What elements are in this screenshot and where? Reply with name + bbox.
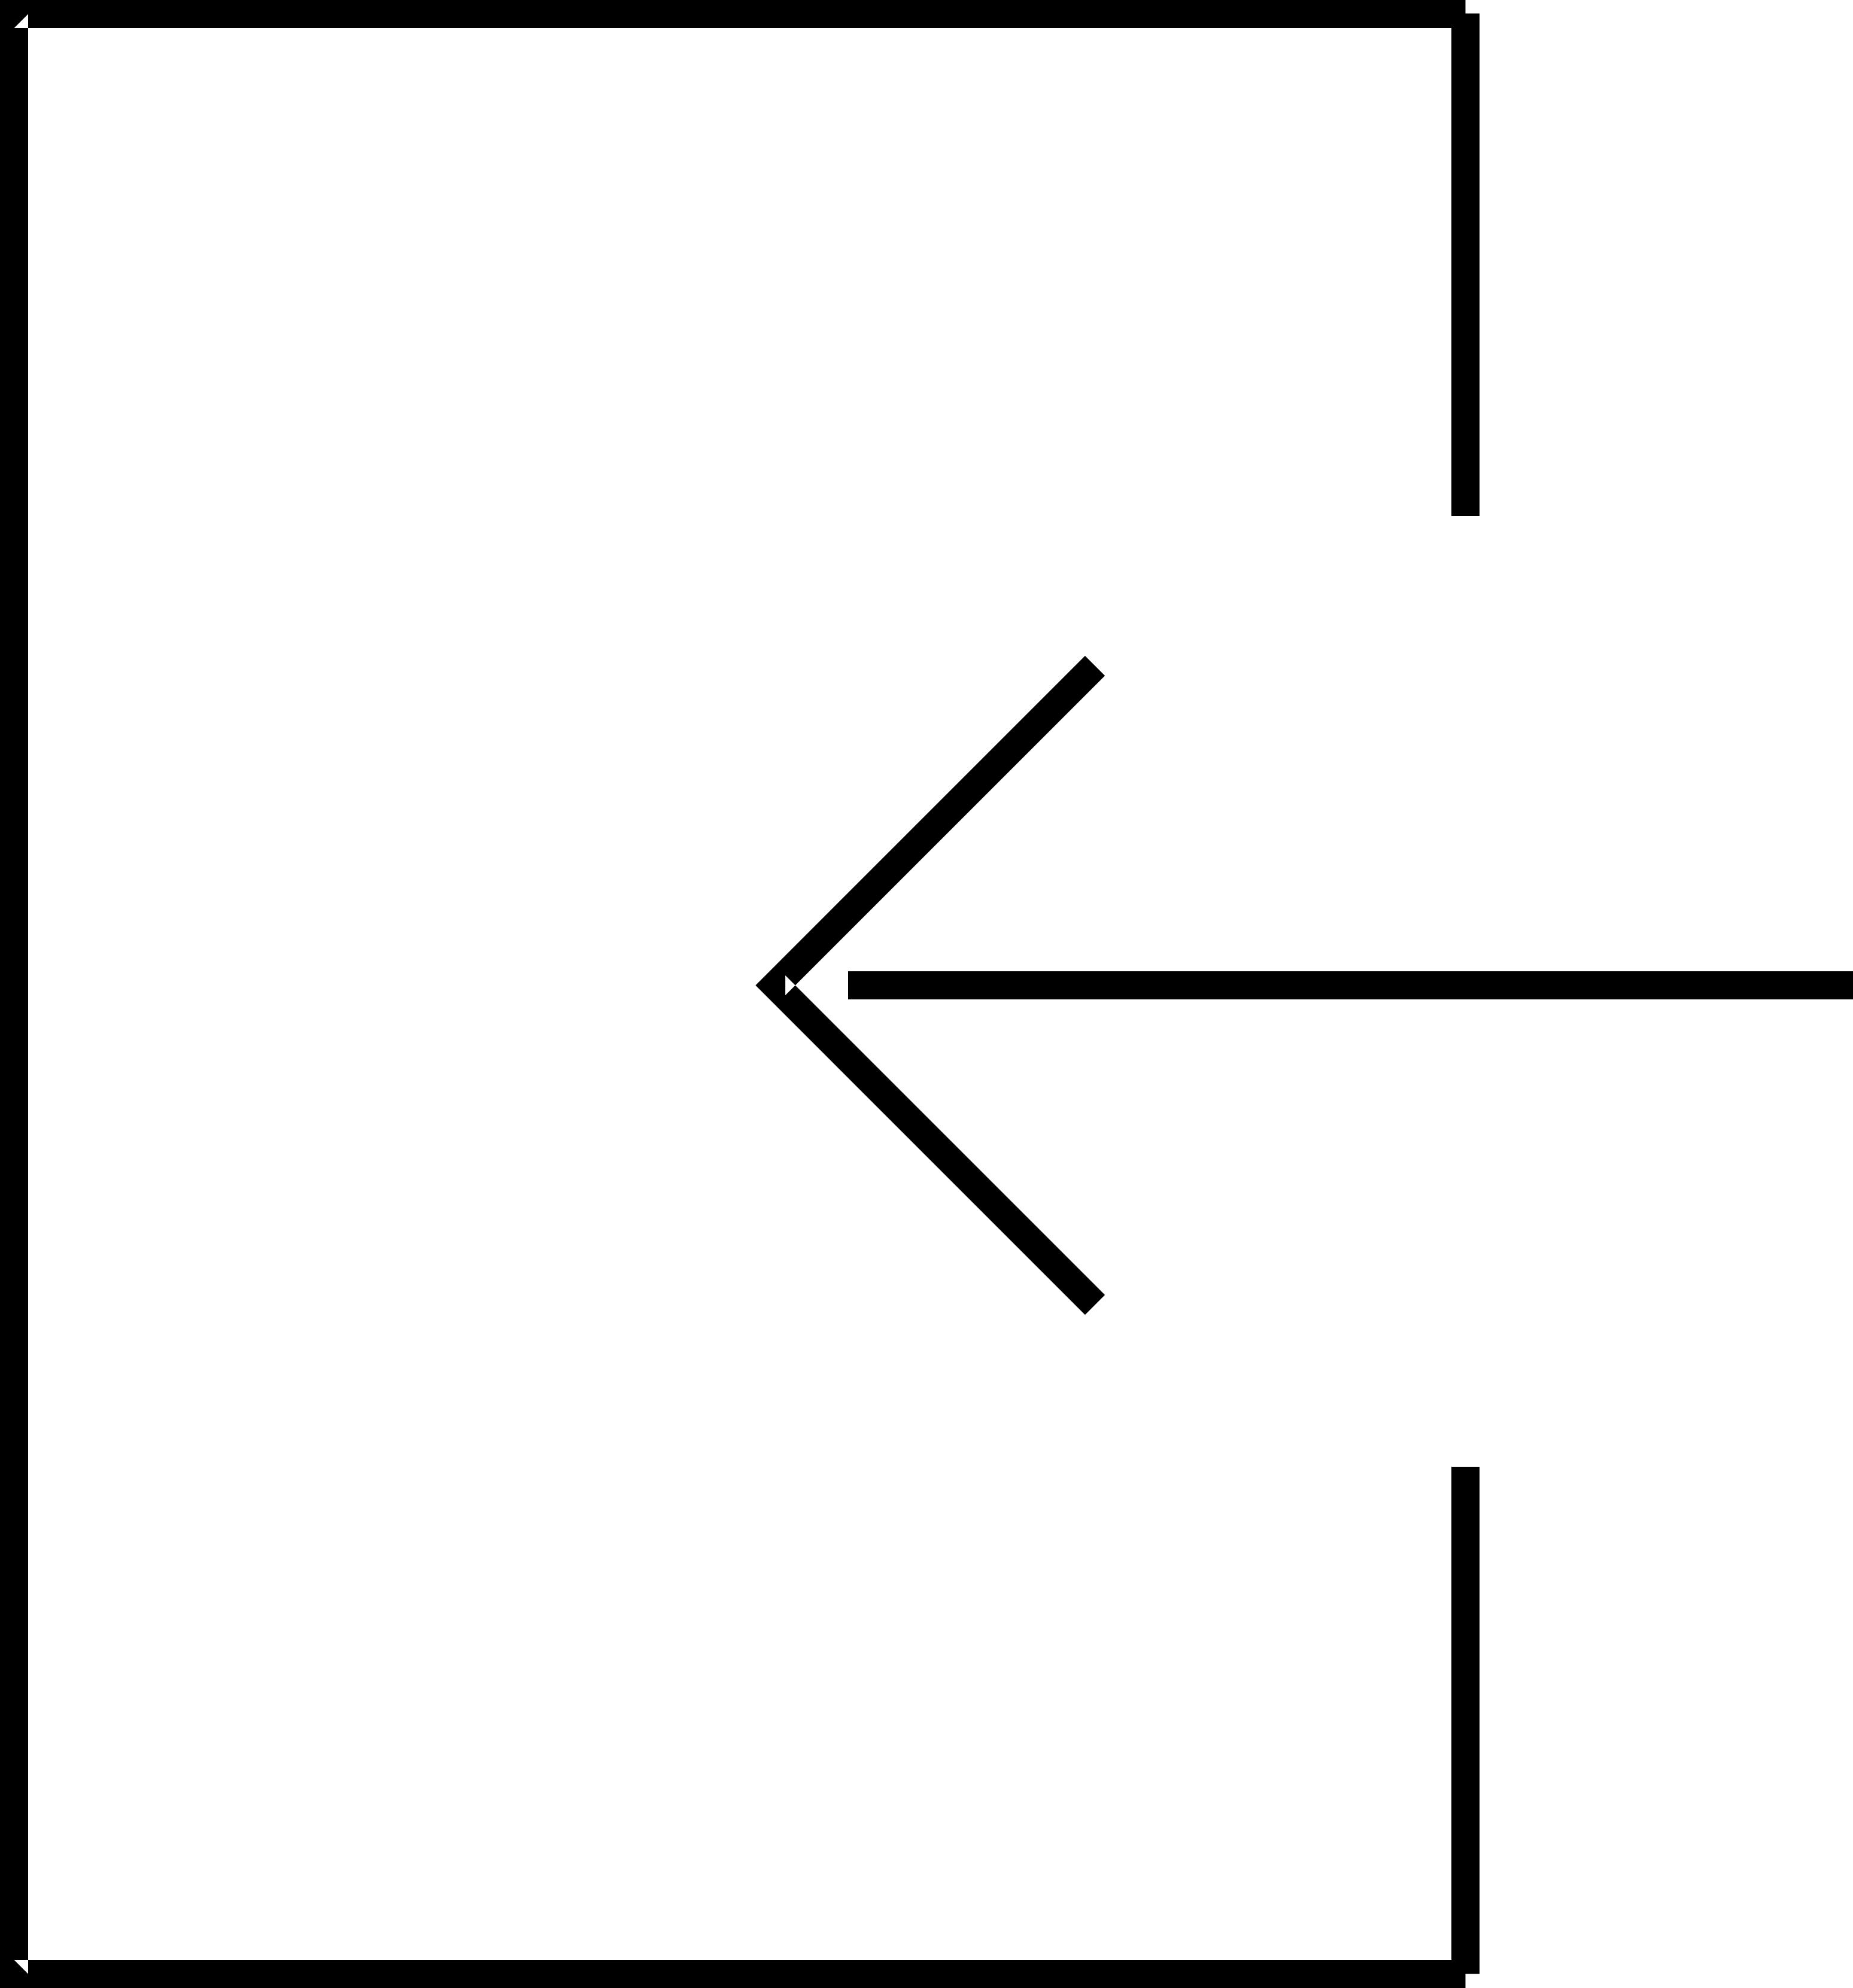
- box frame: right bar upper segment: [1451, 14, 1480, 516]
- join notch bottom-left corner: [14, 1960, 29, 1974]
- join notch arrow tip: [785, 975, 795, 995]
- join notch top-left corner: [14, 14, 29, 29]
- box frame: bottom bar: [0, 1960, 1466, 1988]
- box frame: right bar lower segment: [1451, 1467, 1480, 1974]
- box frame: left bar: [0, 0, 28, 1988]
- arrow head chevron: [755, 656, 1105, 1315]
- arrow shaft: [848, 971, 1853, 999]
- box frame: top bar: [0, 0, 1466, 28]
